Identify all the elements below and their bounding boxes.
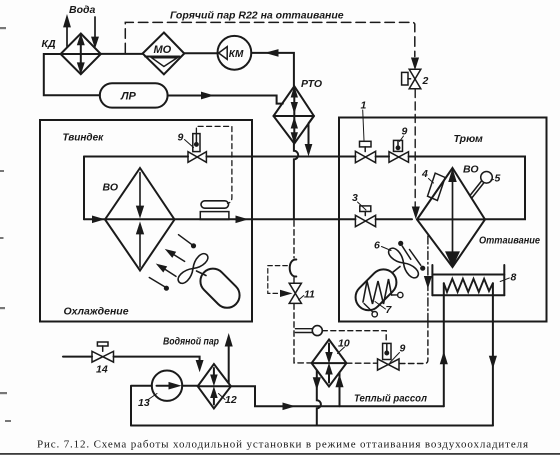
steam heater 12 <box>198 364 231 409</box>
sensing bulb circle <box>312 326 322 336</box>
capillary coil above valve 11 <box>290 259 297 276</box>
leader 4 <box>429 179 434 184</box>
svg-text:13: 13 <box>138 397 150 409</box>
water outlet arrow <box>92 17 98 46</box>
wire brine feed up into diamond 10 <box>337 373 342 407</box>
wire brine riser to pan coil <box>441 283 446 406</box>
leader 10 <box>338 347 345 354</box>
fan tweendeck propeller <box>176 251 210 285</box>
scan specks left edge <box>0 27 11 422</box>
solenoid valve 9 bottom <box>378 343 400 370</box>
wire between valves 1-9R <box>376 156 389 158</box>
leader 6 <box>382 247 392 251</box>
wire KD left down to receiver <box>44 54 100 95</box>
airflow arrow B <box>167 250 185 261</box>
solenoid valve 9 tweendeck <box>188 134 206 163</box>
svg-text:МО: МО <box>154 44 172 56</box>
wire heater 12 to warm brine line <box>231 386 444 409</box>
leader 9 tweendeck <box>185 140 194 148</box>
pan heating coil zigzag <box>444 279 493 292</box>
valve 3 <box>355 206 375 227</box>
room box hold <box>339 118 547 322</box>
wire pump to heater 12 <box>182 385 198 387</box>
wire RTO right outlet down arrow <box>306 116 314 153</box>
condenser KD <box>61 34 101 75</box>
air cooler VO hold <box>417 168 485 267</box>
airflow arrow C <box>158 265 176 277</box>
equalizer arrow into valve 11 <box>281 291 289 296</box>
svg-text:7: 7 <box>386 304 393 316</box>
svg-text:Водяной пар: Водяной пар <box>163 336 219 348</box>
svg-text:9: 9 <box>402 126 408 138</box>
arrow on dash-dot line <box>425 277 430 286</box>
svg-text:Трюм: Трюм <box>454 133 484 145</box>
wire valve3 to VO hold <box>376 218 412 220</box>
svg-text:9: 9 <box>178 132 184 144</box>
dashed from diamond 10 to valve 9 bottom <box>346 362 377 364</box>
pipe top line y156 <box>84 156 188 158</box>
airflow dot line D <box>149 278 169 291</box>
wire after valve 9R to loop corner <box>409 157 525 220</box>
leader 9 bottom <box>390 353 400 363</box>
fan hold shaft <box>393 267 401 273</box>
dashed line valve 2 down to evaporator <box>414 90 416 207</box>
leader 9 hold <box>400 136 404 142</box>
oil separator MO <box>143 33 185 75</box>
steam outlet arrow <box>226 337 231 384</box>
hot gas arrow into valve 2 <box>412 59 417 68</box>
page bottom rule <box>0 453 560 455</box>
wire bottom return line <box>131 425 493 427</box>
svg-text:2: 2 <box>422 75 429 87</box>
heater zigzag 7 <box>363 279 392 304</box>
compressor KM <box>218 36 252 70</box>
svg-text:КД: КД <box>42 38 56 50</box>
svg-text:Горячий пар R22 на оттаивание: Горячий пар R22 на оттаивание <box>170 10 344 22</box>
steam valve 14 <box>92 342 114 362</box>
svg-text:ВО: ВО <box>103 182 119 194</box>
svg-text:14: 14 <box>96 364 108 376</box>
leader 11 <box>299 296 304 301</box>
svg-text:Охлаждение: Охлаждение <box>64 306 129 318</box>
wire liquid line LR to RTO with right arrow <box>168 93 283 104</box>
dash-dot control line from suction to defrost <box>427 236 429 322</box>
wire MO to KM <box>184 52 218 54</box>
solenoid valve 9 hold <box>389 140 409 162</box>
svg-text:1: 1 <box>361 100 367 112</box>
leader 1 <box>363 110 364 141</box>
heat exchanger RTO <box>274 86 314 143</box>
svg-text:11: 11 <box>304 289 315 301</box>
dashed bulb to valve 9 bottom solenoid <box>322 331 386 343</box>
svg-text:6: 6 <box>374 240 380 252</box>
leader 8 <box>500 278 509 282</box>
wire steam line to heater 12 <box>114 357 203 369</box>
wire steam line left <box>63 356 92 358</box>
svg-text:5: 5 <box>495 173 501 185</box>
wire diamond 10 outlet down with hop <box>314 370 321 425</box>
room box tweendeck <box>40 120 252 322</box>
fan tweendeck shaft <box>197 271 207 276</box>
wire between valves 9L-1 <box>206 156 355 158</box>
water inlet arrow <box>64 17 70 47</box>
drain pan 8 <box>432 265 504 295</box>
wire suction line RTO to KM with left arrow <box>251 50 294 86</box>
wire pan coil return down <box>490 283 495 425</box>
bulb capillary double line <box>295 329 312 333</box>
receiver LR <box>100 83 168 107</box>
solenoid valve 2 <box>402 69 421 88</box>
dashed control 9L to thermostat <box>196 126 232 203</box>
brine pump 13 <box>152 371 182 401</box>
riser left <box>83 157 85 220</box>
arrow into VO hold left point <box>413 208 418 217</box>
pipe second line y219 with arrows <box>84 217 355 222</box>
TRV valve 11 <box>289 283 301 303</box>
leader 13 <box>148 394 158 401</box>
dashed liquid feed to valve 11 <box>294 221 312 363</box>
svg-text:9: 9 <box>400 343 406 355</box>
svg-text:Оттаивание: Оттаивание <box>479 235 540 247</box>
dashed equalizer loop <box>268 266 288 294</box>
svg-text:8: 8 <box>511 272 517 284</box>
wire RTO bottom with crossing hop <box>294 144 298 220</box>
fan hold propeller <box>386 246 420 280</box>
heater motor body 7 <box>350 264 402 316</box>
hot gas dashed line R22 <box>125 22 415 56</box>
svg-text:РТО: РТО <box>301 78 322 90</box>
brine heat exchanger 10 <box>312 340 347 387</box>
thermostat base rect <box>200 212 229 220</box>
svg-text:ВО: ВО <box>463 164 479 176</box>
heater terminal right <box>392 292 403 297</box>
svg-text:12: 12 <box>225 394 237 406</box>
svg-text:4: 4 <box>421 168 428 180</box>
leader 12 <box>219 394 226 400</box>
leader 7 <box>375 302 386 310</box>
air cooler VO tweendeck <box>105 168 175 271</box>
svg-text:ЛР: ЛР <box>120 91 137 103</box>
thermostat bulb oval <box>201 201 229 208</box>
thermometer 5 <box>470 172 492 198</box>
heater terminal lower <box>364 304 377 317</box>
device 4 plate <box>428 173 446 200</box>
wire condenser discharge KD to MO <box>101 53 143 55</box>
svg-text:Рис. 7.12. Схема работы холоди: Рис. 7.12. Схема работы холодильной уста… <box>37 439 528 451</box>
airflow hold dot line lower <box>410 250 426 271</box>
valve 1 <box>355 141 375 162</box>
fan tweendeck motor body <box>195 263 244 312</box>
airflow dot line A <box>179 235 197 249</box>
svg-text:Теплый рассол: Теплый рассол <box>354 393 427 405</box>
svg-text:Твиндек: Твиндек <box>63 133 105 144</box>
dashed below box to valve 9 bottom <box>399 322 428 364</box>
leader 5 <box>491 179 494 182</box>
leader 3 <box>358 202 367 210</box>
svg-text:Вода: Вода <box>69 4 95 16</box>
svg-text:КМ: КМ <box>229 49 244 60</box>
wire pump suction <box>131 386 152 426</box>
airflow hold dot line upper <box>398 241 411 260</box>
